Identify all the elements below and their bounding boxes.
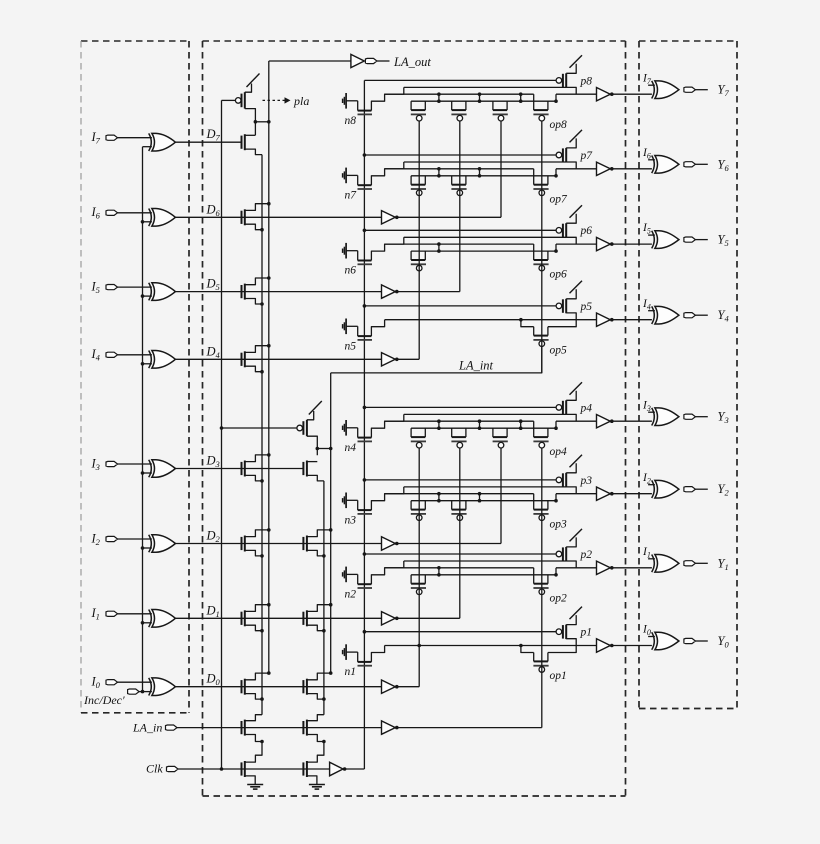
wire: row 8 chain taps <box>437 92 558 103</box>
XOR gate U2a (input stage bit 2) <box>149 535 176 553</box>
input pin Clk <box>146 762 330 776</box>
node LA_int <box>331 346 542 373</box>
wire: row 1 n1 drain stair <box>371 646 384 662</box>
wire: row 3 chain taps <box>437 492 558 503</box>
NMOS chain1 LA_in <box>242 720 245 736</box>
wire: chain1 LA_in source/drain <box>245 715 264 744</box>
XOR gate U6a (input stage bit 6) <box>149 209 176 227</box>
input pin Inc/Dec <box>83 689 152 707</box>
wire: row 8 upper chain line <box>404 86 566 88</box>
buffer D4 to pass-gate column <box>382 353 420 366</box>
wire: row 2 chain taps <box>437 566 558 577</box>
NMOS chain1 Clk <box>242 761 245 777</box>
wire: chain1 bit 2 source/drain <box>245 528 271 558</box>
PMOS transistor op8 <box>533 94 548 121</box>
wire: chain2 bit 3 source/drain <box>307 462 324 481</box>
buffer row 4 output <box>597 415 652 428</box>
XOR gate output bit (row 3) <box>652 480 679 498</box>
buffer LA_out <box>351 54 364 67</box>
wire: row 5 chain line <box>385 318 597 327</box>
PMOS pass transistor row 8 col 3 <box>493 101 508 121</box>
transistor p8 <box>556 55 592 94</box>
input pin LA_in <box>132 721 382 735</box>
wire: row 7 chain taps <box>437 167 558 178</box>
wire: buffered clock gate bus <box>363 80 365 769</box>
wire: chain1 Clk drain <box>245 742 262 763</box>
PMOS transistor op7 <box>533 169 548 196</box>
XOR gate U5a (input stage bit 5) <box>149 283 176 301</box>
node D0 <box>175 672 381 688</box>
wire: row 8 n8 drain stair <box>371 87 403 110</box>
XOR gate output bit (row 5) <box>652 306 679 324</box>
node D3 <box>175 454 303 470</box>
svg-text:Inc/Dec′: Inc/Dec′ <box>83 693 125 707</box>
wire: chain1 bit 6 source/drain <box>245 202 271 232</box>
node D4 <box>175 344 381 360</box>
XOR gate U0a (input stage bit 0) <box>149 678 176 696</box>
svg-text:p3: p3 <box>580 475 593 487</box>
XOR gate U1a (input stage bit 1) <box>149 610 176 628</box>
wire: row 4 source rail <box>411 427 556 429</box>
XOR gate U4a (input stage bit 4) <box>149 351 176 369</box>
wire: row 8 p-gate line <box>364 79 556 81</box>
PMOS pass transistor row 8 col 1 <box>411 101 426 121</box>
input pin I1 <box>91 606 152 622</box>
wire: row 7 p-gate line <box>363 153 556 157</box>
svg-text:p2: p2 <box>580 549 593 561</box>
wire: row 4 p-gate line <box>363 406 556 410</box>
input stub I3 (row 4) <box>642 399 655 413</box>
NMOS chain1 D6 <box>242 209 245 225</box>
transistor n3 <box>343 493 372 527</box>
wire: row 8 source rail <box>411 100 556 102</box>
output pin Y1 <box>684 556 729 572</box>
wire: row 6 upper chain line <box>404 236 566 238</box>
wire: row 6 p-gate line <box>363 229 556 233</box>
wire: row 8 mid chain line <box>385 93 534 95</box>
transistor n2 <box>343 567 372 601</box>
svg-text:op5: op5 <box>550 344 568 356</box>
wire: chain2 evaluation node (bus) <box>330 373 332 673</box>
svg-text:LA_int: LA_int <box>458 358 494 372</box>
transistor n7 <box>343 168 372 202</box>
wire: row 3 output line <box>556 493 597 495</box>
wire: chain2 bit 0 source/drain <box>307 671 333 701</box>
input stub I4 (row 5) <box>642 298 655 312</box>
wire: chain2 LA_in source/drain <box>307 715 326 744</box>
buffer row 6 output <box>597 237 652 250</box>
NMOS chain1 D5 <box>242 284 245 300</box>
wire: row 6 output line <box>556 243 597 245</box>
wire: row 4 output line <box>556 420 597 422</box>
XOR gate output bit (row 8) <box>652 81 679 99</box>
buffer D5 to pass-gate column <box>382 285 460 298</box>
svg-text:p8: p8 <box>580 75 593 87</box>
svg-text:op3: op3 <box>550 518 568 530</box>
PMOS transistor op3 <box>533 494 548 521</box>
PMOS transistor op5 <box>533 327 548 347</box>
input pin I7 <box>91 130 152 146</box>
node D6 <box>175 202 381 218</box>
PMOS transistor op1 <box>533 653 548 673</box>
buffer D6 to pass-gate column <box>382 211 502 224</box>
wire: row 7 source rail <box>411 175 556 177</box>
buffer Clk delay <box>330 762 365 776</box>
wire: pass-gate column 2 (lower) <box>459 448 461 618</box>
input pin I6 <box>91 205 152 221</box>
wire: chain1 evaluation node (bus) <box>269 61 351 673</box>
svg-text:p7: p7 <box>580 150 594 162</box>
input stub I6 (row 7) <box>642 147 655 161</box>
wire: pass-gate column 3 (upper) <box>500 121 502 217</box>
PMOS transistor op4 <box>533 421 548 448</box>
transistor p5 <box>556 281 592 320</box>
svg-text:pla: pla <box>293 94 309 108</box>
XOR gate output bit (row 6) <box>652 231 679 249</box>
wire: row 2 mid chain line <box>385 567 534 569</box>
buffer row 5 output <box>597 313 652 326</box>
buffer D1 to pass-gate column <box>382 612 460 625</box>
NMOS chain2 D1 <box>303 610 307 626</box>
buffer D2 to pass-gate column <box>382 537 502 550</box>
output pin Y0 <box>684 634 730 650</box>
transistor n5 <box>343 319 372 353</box>
wire: row 8 output line <box>556 93 597 95</box>
NMOS chain1 D7 <box>242 134 245 150</box>
transistor p6 <box>556 205 592 244</box>
wire: pass-gate column 1 (lower) <box>417 448 421 687</box>
wire: row 2 p-gate line <box>363 552 556 556</box>
wire: row 4 chain taps <box>437 419 558 430</box>
PMOS precharge transistor (chain 2) <box>297 401 333 455</box>
output pin Y6 <box>684 157 730 173</box>
transistor p3 <box>556 455 592 494</box>
wire: chain2 common source node <box>323 481 325 715</box>
transistor p4 <box>556 382 592 421</box>
input stub I0 (row 1) <box>642 624 655 638</box>
wire: row 3 upper chain line <box>404 486 566 488</box>
wire: chain2 Clk drain <box>307 742 324 763</box>
node D5 <box>175 277 381 293</box>
svg-text:op8: op8 <box>550 119 568 131</box>
dashed box: input conditioning section <box>81 41 189 713</box>
PMOS pass transistor row 3 col 1 <box>411 501 426 521</box>
svg-text:Clk: Clk <box>146 762 163 776</box>
wire: chain1 bit 5 source/drain <box>245 276 271 306</box>
svg-text:n3: n3 <box>345 514 357 526</box>
dashed box: carry-chain core section <box>203 41 626 796</box>
svg-text:op7: op7 <box>550 193 569 205</box>
PMOS pass transistor row 7 col 2 <box>451 176 466 196</box>
PMOS pass transistor row 6 col 1 <box>411 251 426 271</box>
PMOS pass transistor row 4 col 2 <box>451 428 466 448</box>
wire: row 2 n2 drain stair <box>371 561 403 584</box>
wire: pass-gate column 1 (upper) <box>418 121 420 359</box>
svg-text:n8: n8 <box>345 115 357 127</box>
wire: pla output (dashed arrow) <box>263 94 310 108</box>
transistor n6 <box>343 243 372 277</box>
wire: pass-gate column 2 (upper) <box>459 121 461 292</box>
wire: op-gate column (upper, LA_int) <box>541 121 543 373</box>
PMOS pass transistor row 8 col 2 <box>451 101 466 121</box>
svg-text:n4: n4 <box>345 442 357 454</box>
XOR gate output bit (row 7) <box>652 156 679 174</box>
input pin I2 <box>91 531 152 547</box>
output pin Y3 <box>684 410 729 426</box>
wire: row 3 mid chain line <box>385 493 534 495</box>
buffer D0 to pass-gate column <box>382 680 420 693</box>
svg-text:p1: p1 <box>580 627 593 639</box>
wire: chain1 bit 1 source/drain <box>245 603 271 633</box>
wire: XOR second-input bus (Inc/Dec) <box>141 147 152 694</box>
ground (chain 1) <box>245 776 263 789</box>
wire: row 2 output line <box>556 567 597 569</box>
wire: row 6 n6 drain stair <box>371 237 403 260</box>
NMOS chain1 D2 <box>242 536 245 552</box>
svg-text:p4: p4 <box>580 402 593 414</box>
wire: row 5 p-gate line <box>363 304 556 308</box>
wire: row 1 p-gate line <box>363 630 556 634</box>
wire: row 3 p-gate line <box>363 478 556 482</box>
buffer row 3 output <box>597 487 652 500</box>
NMOS chain1 D4 <box>242 351 245 367</box>
svg-text:n6: n6 <box>345 265 357 277</box>
transistor p2 <box>556 529 592 568</box>
wire: chain1 bit 7 source/drain <box>245 135 262 154</box>
buffer row 2 output <box>597 561 652 574</box>
buffer row 8 output <box>597 88 652 101</box>
wire: row 2 upper chain line <box>404 560 566 562</box>
XOR gate U3a (input stage bit 3) <box>149 460 176 478</box>
NMOS chain1 D3 <box>242 461 245 477</box>
wire: chain1 bit 0 source/drain <box>245 671 271 701</box>
NMOS chain2 D2 <box>303 536 307 552</box>
wire: row 7 mid chain line <box>385 168 534 170</box>
wire: row 2 source rail <box>411 574 556 576</box>
svg-text:op6: op6 <box>550 269 568 281</box>
input stub I1 (row 2) <box>642 546 655 560</box>
wire: row 4 upper chain line <box>404 413 566 415</box>
buffer row 7 output <box>597 162 652 175</box>
XOR gate U7a (input stage bit 7) <box>149 133 176 151</box>
wire: row 5 op5 drain to output <box>548 320 576 327</box>
input stub I2 (row 3) <box>642 472 655 486</box>
svg-text:op2: op2 <box>550 592 568 604</box>
wire: row 1 op1 drain to output <box>548 646 576 653</box>
node D2 <box>175 529 381 545</box>
NMOS chain2 D3 <box>303 461 307 477</box>
NMOS chain2 Clk <box>303 761 307 777</box>
wire: row 7 output line <box>556 168 597 170</box>
PMOS pass transistor row 7 col 1 <box>411 176 426 196</box>
input pin I4 <box>91 347 152 363</box>
wire: chain2 bit 1 source/drain <box>307 603 333 633</box>
wire: row 3 source rail <box>411 500 556 502</box>
transistor p7 <box>556 130 593 169</box>
dashed box: output section <box>639 41 737 709</box>
wire: Clk to precharge gates <box>220 100 297 769</box>
PMOS transistor op6 <box>533 244 548 271</box>
wire: pass-gate column 3 (lower) <box>500 448 502 544</box>
wire: row 6 mid chain line <box>385 243 534 245</box>
output pin Y2 <box>684 482 730 498</box>
wire: row 7 upper chain line <box>404 161 566 163</box>
wire: row 6 source rail <box>411 250 556 252</box>
PMOS pass transistor row 2 col 1 <box>411 575 426 595</box>
wire: chain2 bit 2 source/drain <box>307 528 333 558</box>
PMOS pass transistor row 3 col 2 <box>451 501 466 521</box>
wire: row 7 n7 drain stair <box>371 162 403 185</box>
wire: chain1 bit 3 source/drain <box>245 453 271 483</box>
input pin I0 <box>91 675 152 691</box>
input stub I7 (row 8) <box>642 72 655 86</box>
output pin LA_out <box>365 55 431 69</box>
NMOS chain2 LA_in <box>303 720 307 736</box>
output pin Y4 <box>684 308 730 324</box>
input stub I5 (row 6) <box>642 222 655 236</box>
svg-text:op4: op4 <box>550 446 568 458</box>
buffer row 1 output <box>597 639 652 652</box>
XOR gate output bit (row 4) <box>652 408 679 426</box>
wire: chain1 bit 4 source/drain <box>245 344 271 374</box>
NMOS chain1 D1 <box>242 610 245 626</box>
wire: row 4 n4 drain stair <box>371 414 403 437</box>
PMOS pass transistor row 4 col 1 <box>411 428 426 448</box>
wire: row 1 chain line <box>385 644 597 653</box>
wire: row 5 n5 drain stair <box>371 320 384 336</box>
XOR gate output bit (row 2) <box>652 555 679 573</box>
NMOS chain1 D0 <box>242 679 245 695</box>
svg-text:op1: op1 <box>550 670 567 682</box>
ground (chain 2) <box>307 776 325 789</box>
output pin Y7 <box>684 83 730 99</box>
svg-text:LA_in: LA_in <box>132 721 162 735</box>
svg-text:n7: n7 <box>345 189 358 201</box>
output pin Y5 <box>684 233 729 249</box>
PMOS transistor op2 <box>533 568 548 595</box>
transistor n8 <box>343 93 372 127</box>
transistor n1 <box>343 644 372 678</box>
node D7 <box>175 127 241 143</box>
input pin I3 <box>91 456 152 472</box>
PMOS precharge transistor (chain 1) <box>235 74 270 136</box>
svg-text:p6: p6 <box>580 225 593 237</box>
svg-text:n1: n1 <box>345 666 357 678</box>
svg-text:p5: p5 <box>580 301 593 313</box>
transistor p1 <box>556 607 592 646</box>
wire: row 4 mid chain line <box>385 420 534 422</box>
svg-text:LA_out: LA_out <box>393 55 431 69</box>
wire: row 3 n3 drain stair <box>371 487 403 510</box>
wire: chain1 common source node <box>261 155 263 715</box>
XOR gate output bit (row 1) <box>652 632 679 650</box>
buffer LA_in to op-gate column <box>382 721 542 734</box>
wire: op-gate column (lower) <box>541 448 543 728</box>
NMOS chain2 D0 <box>303 679 307 695</box>
wire: row 6 chain taps <box>437 242 558 253</box>
PMOS pass transistor row 4 col 3 <box>493 428 508 448</box>
svg-text:n2: n2 <box>345 588 357 600</box>
node D1 <box>175 603 381 619</box>
input pin I5 <box>91 279 152 295</box>
transistor n4 <box>343 420 372 454</box>
svg-text:n5: n5 <box>345 340 357 352</box>
